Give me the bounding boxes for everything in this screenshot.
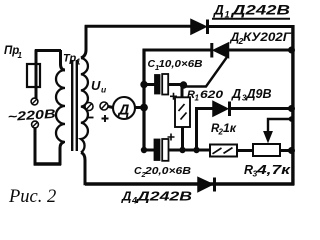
wire bottom mains bbox=[34, 162, 61, 166]
junction thyristor/bus bbox=[288, 47, 295, 54]
terminal upper ~220V bbox=[31, 98, 38, 105]
capacitor C1 10,0x6V bbox=[155, 75, 161, 95]
plus mark C1 bbox=[170, 93, 177, 100]
wire terminal to ammeter bbox=[108, 106, 114, 107]
terminal plus side bbox=[100, 102, 108, 110]
wire secondary bottom stub bbox=[81, 153, 85, 186]
wire top mains horizontal fuse to primary bbox=[35, 49, 61, 52]
wire primary bottom stub bbox=[60, 142, 64, 165]
junction wiper/bus bbox=[289, 116, 295, 122]
fuse Pr1 bbox=[27, 64, 40, 87]
svg-text:Д: Д bbox=[231, 87, 241, 101]
svg-text:10,0×6В: 10,0×6В bbox=[159, 58, 203, 70]
wire C2 left bbox=[144, 149, 154, 152]
wire thyristor cathode to centre bus corner bbox=[143, 49, 211, 52]
junction D3/C2 bbox=[193, 147, 199, 153]
wire left mains vertical bbox=[34, 128, 37, 166]
terminal tap (minus) bbox=[85, 103, 93, 111]
svg-text:Д: Д bbox=[121, 189, 132, 204]
svg-text:1: 1 bbox=[18, 51, 23, 60]
wire C2 right to R2 bbox=[169, 149, 211, 152]
node C1/R1/gate bbox=[180, 81, 187, 88]
svg-text:Д9В: Д9В bbox=[246, 87, 272, 101]
wiper tap wire from bus bbox=[268, 119, 293, 133]
junction centre bus / C1 bbox=[140, 81, 147, 88]
svg-text:1к: 1к bbox=[223, 123, 237, 135]
capacitor C2 20,0x6V bbox=[154, 139, 160, 161]
wire ammeter to bus bbox=[134, 106, 142, 109]
transformer core bbox=[71, 60, 73, 151]
svg-text:1: 1 bbox=[195, 94, 200, 103]
wire D3 anode corner bbox=[197, 109, 215, 151]
underline D1 label bbox=[212, 18, 290, 20]
wire fuse vertical bbox=[35, 50, 38, 99]
junction centre bus / C2 bbox=[141, 147, 147, 153]
plus mark C2 bbox=[168, 134, 175, 141]
svg-text:и: и bbox=[101, 85, 107, 95]
junction R1/C2 bbox=[179, 147, 185, 153]
wire R1 top stub bbox=[181, 85, 184, 98]
transformer Tr1 primary winding bbox=[56, 70, 65, 142]
svg-text:Рис. 2: Рис. 2 bbox=[8, 187, 56, 207]
wire C1 right to node bbox=[168, 83, 185, 86]
junction R3/bus bbox=[288, 147, 295, 154]
svg-text:620: 620 bbox=[200, 89, 224, 101]
thyristor gate wire bbox=[184, 57, 227, 87]
wire C1 left bbox=[143, 83, 155, 86]
diode D1 D242V bbox=[191, 20, 206, 35]
terminal lower ~220V bbox=[32, 121, 39, 128]
wire bottom rail bbox=[85, 182, 294, 185]
svg-text:Тр: Тр bbox=[63, 53, 76, 65]
wiper arrowhead on R3 bbox=[264, 132, 272, 143]
svg-text:1: 1 bbox=[76, 58, 81, 67]
svg-text:U: U bbox=[91, 78, 101, 93]
wire thyristor anode to right bus bbox=[229, 49, 293, 52]
wire R2 to R3 bbox=[237, 149, 253, 152]
diode D3 D9V bbox=[213, 102, 228, 117]
svg-text:4,7к: 4,7к bbox=[256, 163, 291, 177]
wire top rail bbox=[85, 25, 192, 28]
svg-text:Д242В: Д242В bbox=[136, 189, 192, 204]
junction centre bus / ammeter bbox=[140, 104, 148, 112]
wire D3 cathode to bus bbox=[231, 107, 293, 110]
resistor R3 4,7k potentiometer bbox=[253, 144, 280, 156]
wire primary top stub bbox=[61, 50, 66, 70]
minus mark bbox=[88, 117, 94, 119]
wire top rail right bbox=[208, 25, 294, 28]
svg-text:КУ202Г: КУ202Г bbox=[243, 30, 292, 44]
resistor R2 1k bbox=[210, 145, 237, 157]
thyristor D2 KU202G bbox=[210, 43, 213, 58]
wire right bus bbox=[291, 25, 294, 186]
wire secondary top stub bbox=[81, 25, 86, 58]
svg-text:20,0×6В: 20,0×6В bbox=[144, 165, 192, 177]
svg-text:Д: Д bbox=[213, 3, 224, 18]
plus mark terminal bbox=[102, 115, 109, 122]
svg-text:Д242В: Д242В bbox=[231, 3, 291, 18]
ammeter A bbox=[113, 97, 135, 119]
wire R1 bottom stub bbox=[181, 127, 184, 151]
svg-text:Д: Д bbox=[117, 102, 130, 119]
resistor R1 620 bbox=[175, 97, 190, 127]
junction D3/bus bbox=[288, 105, 295, 112]
wire centre bus bbox=[142, 49, 145, 152]
wire R3 to bus bbox=[280, 149, 293, 152]
diode D4 D242V bbox=[198, 178, 213, 192]
transformer Tr1 secondary winding bbox=[81, 58, 88, 153]
